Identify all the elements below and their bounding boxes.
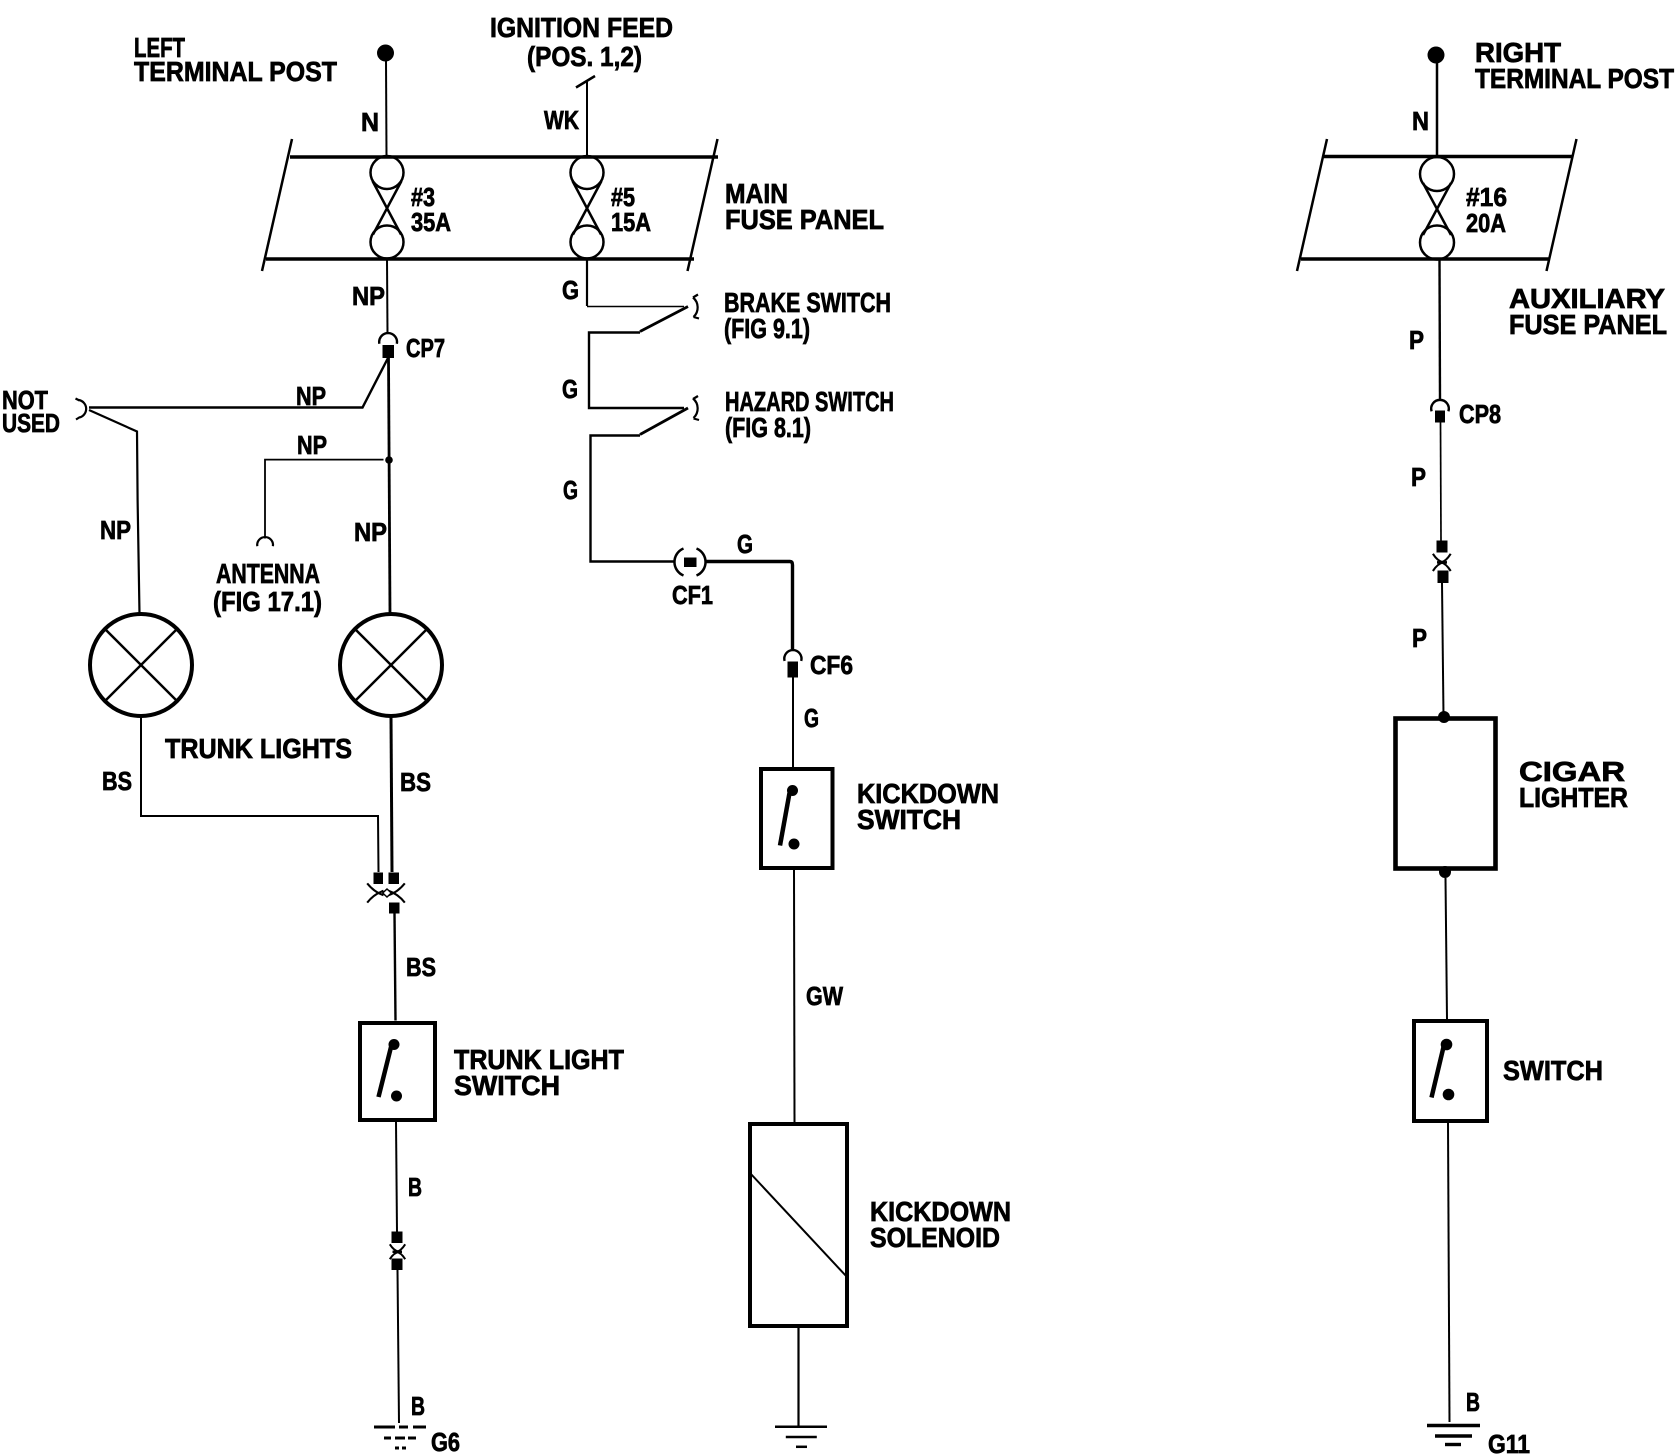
- wire WK: [586, 80, 588, 156]
- fuse #3 35A: [371, 156, 404, 259]
- wire P to cigar lighter: [1442, 583, 1444, 716]
- svg-text:BS: BS: [102, 766, 132, 796]
- svg-text:P: P: [1409, 325, 1424, 355]
- svg-text:NP: NP: [352, 281, 385, 311]
- svg-text:G: G: [563, 475, 578, 505]
- right terminal post: [1428, 47, 1445, 64]
- svg-text:N: N: [361, 107, 379, 137]
- wire G CF6 to kickdown switch: [792, 678, 794, 768]
- svg-text:N: N: [1412, 106, 1429, 136]
- wire B to ground G11: [1448, 1123, 1450, 1422]
- wire B: [396, 1122, 397, 1232]
- wire NP from fuse 3: [386, 259, 389, 334]
- connector CF1: [674, 549, 705, 576]
- svg-text:(FIG 17.1): (FIG 17.1): [213, 586, 322, 617]
- connector CP8: [1431, 400, 1449, 423]
- svg-text:NP: NP: [354, 517, 387, 547]
- hazard switch lever: [640, 408, 688, 435]
- svg-text:CF6: CF6: [810, 650, 853, 680]
- svg-text:FUSE PANEL: FUSE PANEL: [725, 204, 884, 235]
- svg-text:BS: BS: [400, 767, 431, 797]
- fuse #16 20A: [1420, 157, 1454, 260]
- svg-text:(FIG 8.1): (FIG 8.1): [725, 412, 811, 443]
- svg-text:20A: 20A: [1466, 208, 1506, 238]
- svg-text:NP: NP: [296, 381, 326, 411]
- brake switch contact: [693, 295, 699, 319]
- svg-text:WK: WK: [544, 105, 579, 135]
- svg-text:G: G: [804, 703, 819, 733]
- kickdown solenoid: [750, 1124, 847, 1326]
- connector CP7: [379, 333, 397, 358]
- svg-text:TERMINAL POST: TERMINAL POST: [1475, 63, 1674, 94]
- svg-text:SWITCH: SWITCH: [857, 804, 961, 835]
- svg-text:SWITCH: SWITCH: [454, 1070, 560, 1101]
- wire P CP8 to connector: [1440, 423, 1443, 541]
- svg-text:SWITCH: SWITCH: [1503, 1055, 1603, 1086]
- ground G6: [374, 1427, 426, 1448]
- main fuse panel: [262, 139, 718, 271]
- wire BS to switch: [395, 914, 396, 1021]
- connector CF6: [784, 650, 801, 677]
- wire P fuse to CP8: [1438, 259, 1441, 401]
- wire N right: [1436, 63, 1439, 156]
- inline connector P: [1433, 541, 1451, 584]
- ignition feed stub switch slash: [576, 76, 595, 88]
- switch (right): [1414, 1021, 1487, 1121]
- wire solenoid to ground: [797, 1328, 799, 1426]
- not used connector: [76, 399, 87, 420]
- svg-text:G: G: [737, 529, 753, 559]
- wire GW: [793, 870, 796, 1122]
- svg-text:G: G: [562, 374, 578, 404]
- svg-text:USED: USED: [2, 408, 60, 438]
- wire G hazard to CF1: [591, 436, 675, 562]
- cigar lighter: [1396, 711, 1496, 878]
- svg-text:SOLENOID: SOLENOID: [870, 1222, 1000, 1253]
- svg-text:B: B: [1466, 1387, 1480, 1417]
- svg-text:15A: 15A: [611, 207, 651, 237]
- wire cigar lighter to switch: [1446, 878, 1448, 1019]
- wire BS right: [391, 717, 392, 873]
- wire G CF1 to CF6: [705, 562, 793, 650]
- trunk light right: [340, 614, 442, 716]
- wire NP diagonal to not-used: [89, 358, 388, 408]
- wire G brake to hazard: [589, 333, 684, 409]
- svg-text:B: B: [411, 1391, 425, 1421]
- svg-text:(POS. 1,2): (POS. 1,2): [527, 41, 642, 72]
- svg-text:G6: G6: [431, 1427, 460, 1456]
- wire G to brake switch: [587, 306, 684, 308]
- svg-text:G: G: [562, 275, 579, 305]
- trunk light switch: [360, 1023, 435, 1120]
- wire BS left: [141, 717, 379, 873]
- svg-text:G11: G11: [1488, 1429, 1530, 1456]
- svg-text:ANTENNA: ANTENNA: [216, 558, 320, 589]
- wire G from fuse 5: [586, 259, 588, 306]
- ground G11: [1427, 1426, 1480, 1445]
- brake switch lever: [640, 307, 688, 332]
- svg-text:GW: GW: [806, 981, 843, 1011]
- svg-text:B: B: [408, 1172, 422, 1202]
- splice connector (two wires to one): [367, 873, 405, 914]
- wire NP not-used to left trunk light: [89, 410, 140, 614]
- svg-text:TRUNK LIGHTS: TRUNK LIGHTS: [165, 733, 352, 764]
- svg-text:IGNITION FEED: IGNITION FEED: [490, 12, 673, 43]
- antenna connector: [257, 537, 273, 546]
- hazard switch contact: [693, 396, 699, 420]
- wire B to ground: [398, 1270, 400, 1423]
- svg-text:NP: NP: [297, 430, 327, 460]
- fuse #5 15A: [571, 156, 604, 259]
- svg-text:35A: 35A: [411, 207, 451, 237]
- ground (kickdown solenoid): [775, 1427, 827, 1447]
- svg-text:LIGHTER: LIGHTER: [1519, 782, 1628, 813]
- svg-text:P: P: [1411, 462, 1426, 492]
- svg-text:BS: BS: [406, 952, 436, 982]
- wire NP main vertical to right trunk light: [389, 358, 391, 614]
- wire N left: [385, 61, 388, 156]
- svg-text:P: P: [1412, 623, 1427, 653]
- node junction on NP vertical: [385, 456, 393, 464]
- wire NP branch to antenna: [265, 460, 384, 539]
- kickdown switch: [761, 769, 833, 868]
- left terminal post: [377, 45, 394, 62]
- inline connector B: [390, 1232, 405, 1271]
- svg-text:CF1: CF1: [672, 580, 713, 610]
- svg-text:NP: NP: [100, 515, 131, 545]
- trunk light left: [90, 614, 192, 716]
- svg-text:FUSE PANEL: FUSE PANEL: [1509, 309, 1667, 340]
- svg-text:TERMINAL POST: TERMINAL POST: [134, 56, 337, 87]
- svg-text:CP7: CP7: [406, 333, 445, 363]
- svg-text:CP8: CP8: [1459, 399, 1501, 429]
- svg-text:(FIG 9.1): (FIG 9.1): [724, 313, 810, 344]
- auxiliary fuse panel: [1297, 139, 1577, 271]
